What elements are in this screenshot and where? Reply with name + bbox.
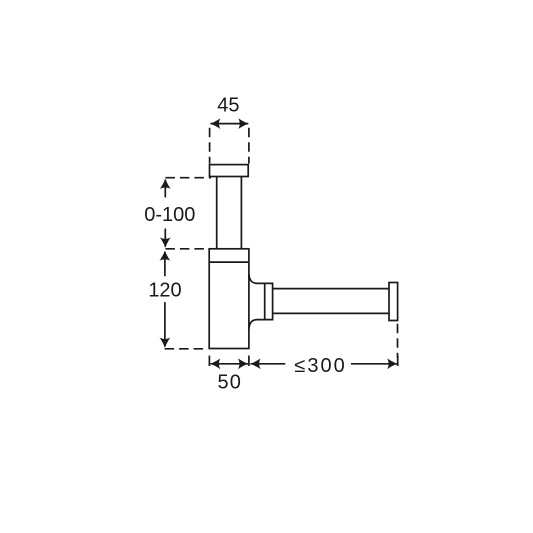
svg-text:120: 120 [148, 280, 181, 302]
extension line collar top (dashed) [165, 248, 208, 250]
dim 50 line [210, 363, 248, 365]
outlet pipe top edge [273, 288, 389, 290]
inlet pipe left edge [216, 177, 218, 250]
outlet nut inner line [264, 283, 266, 319]
extension line body bottom (dashed) [165, 348, 208, 350]
extension line flange bottom (dashed) [165, 177, 211, 179]
svg-text:≤300: ≤300 [294, 355, 346, 377]
dim 0-100 line upper segment [164, 180, 166, 198]
svg-text:45: 45 [217, 95, 239, 117]
trap body outline [209, 249, 249, 349]
extension line 45 right (dashed) [248, 128, 250, 164]
inlet pipe right edge [240, 177, 242, 250]
tick 50 left [208, 356, 210, 367]
outlet wall flange [389, 283, 398, 321]
outlet pipe bottom edge [273, 312, 389, 314]
svg-text:50: 50 [217, 372, 242, 394]
extension line outlet flange (dashed) [397, 324, 399, 358]
outlet fillet and nut block [249, 274, 273, 328]
dim 300 right segment [351, 363, 397, 365]
inlet wall flange [210, 165, 249, 177]
dim 120 line lower segment [164, 302, 166, 346]
dim 0-100 line lower segment [164, 229, 166, 247]
svg-text:0-100: 0-100 [144, 204, 195, 226]
extension line 45 left (dashed) [209, 128, 211, 164]
tick 300 right [397, 356, 399, 367]
dim line 45 [210, 123, 248, 125]
trap collar separator line [209, 261, 249, 263]
tick 50/300 middle [248, 356, 250, 367]
dim 120 line upper segment [164, 252, 166, 276]
dim 300 left segment [250, 363, 285, 365]
